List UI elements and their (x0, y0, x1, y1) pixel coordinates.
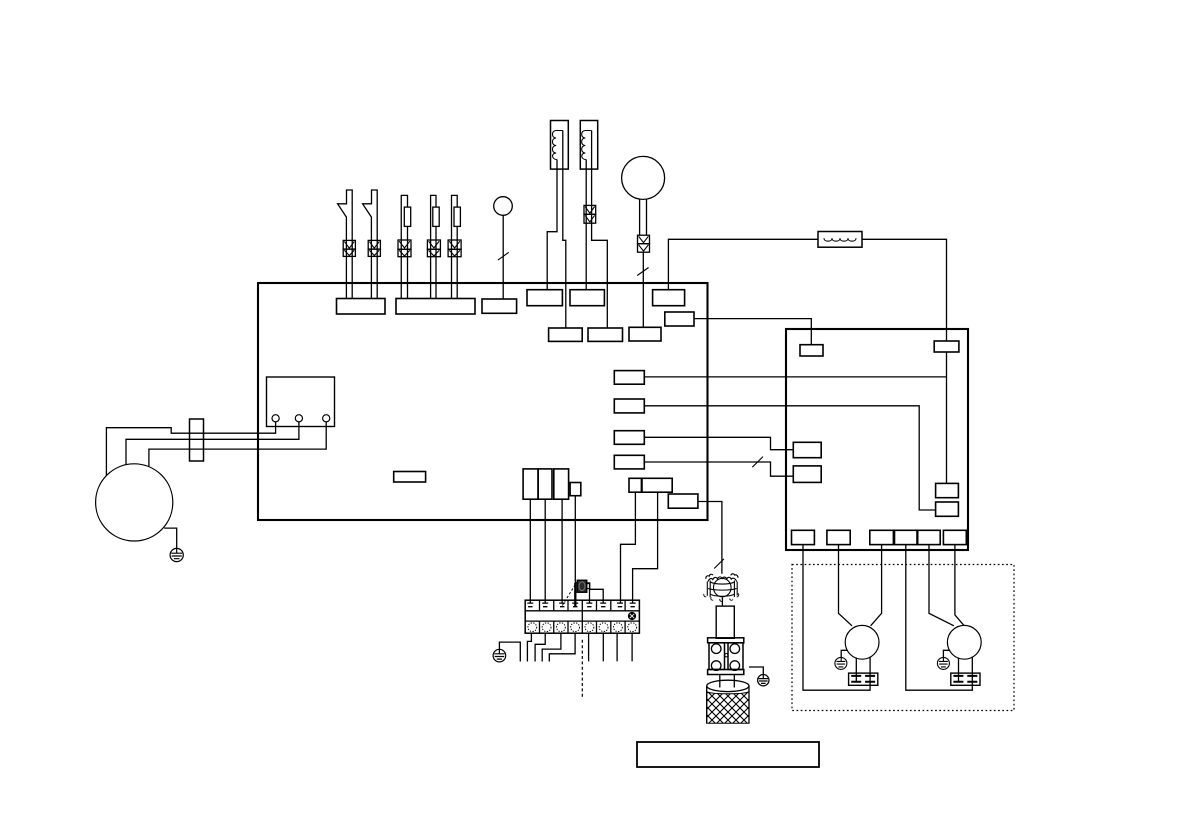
pad PCB2 out 6 (943, 530, 966, 544)
4-way valve coil M1 (622, 156, 665, 327)
thermistor TH3 (with element) (398, 195, 411, 298)
wire CN11b to terminal 2 (544, 499, 546, 603)
coil winding SV1 (552, 131, 562, 160)
wire A to PCB2 (644, 376, 946, 378)
dashed field-wiring divider (581, 640, 583, 697)
wire TH4 leads (431, 195, 436, 298)
cell dividers top row (540, 600, 626, 611)
terminal pin U (272, 415, 279, 422)
thermistor TH2 (fork sensor) (363, 190, 381, 299)
grommet bushing (190, 419, 204, 461)
varistor component Z (577, 580, 590, 592)
element body TH4 (433, 207, 439, 226)
thermistor TH1 (fork sensor) (338, 190, 356, 299)
connector CN8 (588, 328, 623, 341)
thermistor TH4 (with element) (427, 195, 440, 298)
main control board PCB1 (258, 283, 708, 520)
connector CN4 (527, 290, 562, 306)
reactor L (818, 232, 862, 248)
wire MF1 earth (841, 650, 847, 657)
ground MF2 (937, 657, 949, 669)
slash S6 cable mark (498, 252, 509, 260)
pad PCB2 mid-left 1 (793, 442, 821, 457)
thermistor TH5 (with element) (448, 195, 461, 298)
pressure switch S6 (494, 197, 513, 216)
connector CN11a (523, 469, 538, 499)
wire pad4 to capacitor C2 (906, 545, 973, 691)
cord bushing (pictorial) (704, 574, 739, 602)
pad PCB2 out 2 (827, 530, 850, 544)
slash wire D cable mark (752, 457, 763, 468)
wire MF2 earth (943, 650, 949, 657)
pad PCB2 bottom-right 2 (936, 502, 959, 516)
connector X5 (448, 240, 461, 249)
ground MF1 (835, 657, 847, 669)
element body TH3 (404, 207, 410, 226)
wire SV2 lead B (592, 131, 608, 329)
plug pin holes (711, 644, 721, 654)
wire bold terminal 4 (574, 583, 576, 607)
connector CN11b (538, 469, 552, 499)
capacitor C2 (951, 673, 980, 685)
wire TH5 leads (452, 195, 458, 298)
connector CN6 (653, 290, 685, 306)
connector X1 (343, 240, 355, 249)
connector CN13 (570, 483, 581, 496)
connector CN14 (dual) (629, 478, 672, 492)
wire W to compressor (149, 422, 326, 467)
wire Z to terminal 5 (587, 584, 590, 604)
dashed link Z to terminal 3 (562, 582, 577, 606)
output port D (614, 455, 644, 469)
fan motor MF1 (845, 625, 879, 659)
ground TB earth (493, 649, 506, 662)
wire SV1 lead B (563, 131, 566, 329)
output port C (614, 431, 644, 445)
wire TH3 leads (401, 195, 407, 298)
wire terminal 3 down (542, 633, 561, 661)
connector header CN3 (482, 299, 517, 313)
title block rectangle (637, 742, 819, 767)
wire plug earth (749, 667, 763, 675)
element body TH5 (454, 207, 460, 226)
terminal block TB (525, 600, 639, 633)
connector CN15 (668, 494, 698, 508)
connector X6 (584, 205, 596, 214)
component R (small rect on PCB1) (394, 472, 426, 483)
pad PCB2 top-left (800, 345, 823, 356)
wire C to PCB2 (644, 437, 793, 449)
wire terminal 8 down (631, 633, 633, 661)
wire compressor earth (164, 528, 177, 548)
dashed enclosure box (fan motor section) (792, 565, 1014, 711)
pad PCB2 out 1 (792, 530, 815, 544)
coil winding SV2 (582, 131, 592, 160)
connector X7 (638, 235, 650, 244)
wire TH2 leads (363, 190, 378, 299)
wire CN10 to PCB2 pad (694, 319, 811, 345)
wire reactor left to CN6 (668, 239, 818, 289)
wire terminal 4 down (549, 633, 575, 661)
pad PCB2 bottom-right 1 (936, 483, 959, 497)
wire S6 to connector (502, 215, 504, 299)
wire CN14 left to terminal 7 (621, 492, 636, 603)
compressor motor MC (96, 464, 173, 541)
connector CN7 (549, 328, 583, 341)
output port A (614, 371, 644, 385)
wire SV1 lead A (547, 160, 557, 290)
winding reactor (824, 238, 856, 241)
wire CN11a to terminal 1 (529, 499, 531, 603)
wire B to PCB2 (644, 406, 935, 510)
wire MF2 to C2 (958, 658, 960, 682)
connector CN12 (554, 469, 569, 499)
terminal lug circles (528, 623, 637, 632)
plug pins (720, 675, 735, 688)
connector CN5 (570, 290, 604, 306)
terminal pin W (323, 415, 330, 422)
ground plug earth (758, 675, 769, 686)
pad PCB2 mid-left 2 (793, 466, 821, 483)
plug body (708, 638, 744, 675)
wire terminal 2 down (535, 633, 545, 661)
slash M1 cable mark (637, 268, 648, 276)
wire earth pigtail (499, 642, 520, 661)
middle divider (581, 611, 583, 621)
wire bushing to plug (721, 598, 723, 607)
wire SV2 lead A (585, 160, 587, 290)
connector header CN1 (337, 299, 386, 315)
wire CN15 to power cord (698, 502, 722, 574)
solenoid coil SV2 (580, 121, 607, 329)
wire MF1 to C1 (855, 658, 857, 682)
pad PCB2 out 3 (870, 530, 894, 544)
connector header CN2 (396, 299, 475, 315)
connector CN9 (629, 327, 661, 341)
connector X4 (427, 240, 440, 249)
slash power cord mark (714, 559, 724, 569)
screw icon TB (629, 613, 636, 620)
fan motor MF2 (947, 625, 981, 659)
plug neck (716, 606, 734, 638)
wire terminal 1 down (527, 633, 531, 661)
wire terminal 5 down (588, 633, 590, 661)
wire pad5 to fan motor MF2 (929, 545, 954, 626)
wire V to compressor (126, 422, 299, 465)
wire pad2 to fan motor MF1 (839, 545, 853, 626)
wire pad3 to fan motor MF1 (871, 545, 882, 626)
wire pad1 to capacitor C1 (803, 545, 870, 691)
wire M1 lead (642, 252, 644, 327)
wire PCB2 vertical bus (946, 352, 948, 483)
wire terminal 7 down (616, 633, 618, 661)
outdoor fan board PCB2 (786, 329, 968, 550)
relay box K1 (267, 377, 335, 427)
wire Z to terminal 6 (590, 589, 603, 603)
wire terminal 6 down (602, 633, 604, 661)
terminal pin V (295, 415, 302, 422)
wires inside grommet (190, 433, 204, 449)
ground compressor (170, 548, 183, 561)
wire reactor right to PCB2 (862, 239, 947, 341)
pad PCB2 out 4 (895, 530, 918, 544)
wire M1 pair (640, 199, 647, 235)
connector X3 (398, 240, 411, 249)
wire CN13 to terminal 4 (574, 496, 576, 584)
capacitor C1 (849, 673, 878, 685)
pad PCB2 out 5 (918, 530, 941, 544)
power cable (707, 680, 749, 723)
cell dividers bottom row (540, 621, 626, 633)
wire pad6 to fan motor MF2 (955, 545, 964, 626)
wire CN12 to terminal 3 (561, 499, 563, 603)
output port B (614, 399, 644, 413)
pad PCB2 top-right (934, 341, 959, 352)
wire U to compressor (106, 422, 275, 476)
connector X2 (368, 240, 380, 249)
wire CN14 right to terminal 8 (633, 492, 658, 603)
terminal screw marks (527, 603, 635, 607)
connector CN10 (665, 312, 694, 326)
wire D to PCB2 (644, 462, 793, 476)
solenoid coil SV1 (547, 121, 568, 329)
wire TH1 leads (338, 190, 353, 299)
